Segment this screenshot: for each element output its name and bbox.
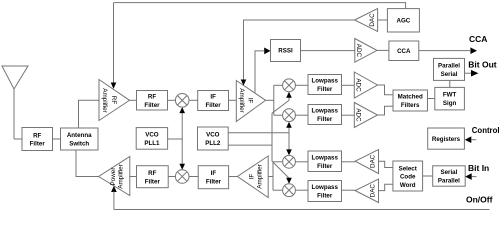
wire TX mixer to IF filter bbox=[189, 176, 198, 178]
AGC box bbox=[387, 9, 419, 32]
svg-text:Power: Power bbox=[110, 168, 117, 186]
svg-text:DAC: DAC bbox=[369, 154, 376, 168]
svg-text:Lowpass: Lowpass bbox=[311, 155, 338, 162]
svg-text:IF: IF bbox=[249, 174, 256, 180]
mixer I (receive) bbox=[283, 79, 296, 92]
wires ADCs to Matched Filters bbox=[378, 85, 394, 115]
AGC feedback wire to IF amplifier with arrow bbox=[241, 21, 247, 86]
svg-text:IF: IF bbox=[211, 170, 217, 177]
Serial Parallel box bbox=[433, 166, 466, 186]
mixer (transmit upconvert) bbox=[175, 170, 189, 184]
wire RF filter to mixer bbox=[168, 99, 176, 101]
svg-text:Filter: Filter bbox=[206, 178, 222, 185]
IF amplifier (transmit) bbox=[237, 156, 268, 198]
RF amplifier (receive) bbox=[99, 80, 130, 121]
wire lowpass Q TX to mixer Q bbox=[295, 189, 308, 191]
svg-text:IF: IF bbox=[210, 93, 216, 100]
DAC Q (transmit) bbox=[355, 179, 378, 203]
Bit In arrow bbox=[465, 173, 476, 180]
svg-text:Registers: Registers bbox=[432, 136, 461, 143]
mixer (receive first) bbox=[175, 94, 189, 108]
svg-text:Filter: Filter bbox=[144, 102, 160, 109]
Antenna Switch box bbox=[61, 128, 99, 150]
antenna bbox=[2, 66, 28, 139]
svg-text:Serial: Serial bbox=[441, 71, 458, 78]
svg-text:IF: IF bbox=[247, 98, 254, 104]
svg-text:CCA: CCA bbox=[469, 34, 487, 44]
Lowpass Filter box Q (transmit) bbox=[308, 181, 342, 202]
svg-text:Serial: Serial bbox=[440, 169, 457, 176]
AGC feedback wire to RF amplifier with arrow bbox=[111, 3, 117, 89]
wire DAC Q to lowpass Q bbox=[342, 189, 356, 191]
Matched Filters box bbox=[393, 90, 428, 111]
On/Off wire with arrow into power amplifier bbox=[111, 186, 489, 210]
LO wire PLL2 second output with diagonals bbox=[228, 92, 292, 184]
VCO PLL2 box bbox=[198, 127, 229, 150]
ADC Q bbox=[354, 103, 377, 128]
svg-text:RF: RF bbox=[110, 96, 117, 105]
RF Filter box (antenna) bbox=[22, 128, 53, 151]
wire lowpass Q to ADC Q bbox=[342, 114, 355, 116]
wire lowpass I TX to mixer I bbox=[295, 161, 308, 163]
svg-text:Lowpass: Lowpass bbox=[311, 108, 338, 115]
svg-text:Filter: Filter bbox=[317, 193, 333, 200]
RF Filter box (transmit) bbox=[137, 166, 169, 188]
svg-text:Filter: Filter bbox=[317, 163, 333, 170]
second feedback wire DAC to IF amp bbox=[244, 20, 355, 22]
svg-text:On/Off: On/Off bbox=[466, 195, 493, 205]
Lowpass Filter box Q (receive) bbox=[308, 105, 342, 125]
wires Select Code Word to DACs bbox=[379, 161, 393, 190]
svg-text:DAC: DAC bbox=[369, 13, 376, 27]
svg-text:PLL1: PLL1 bbox=[144, 140, 160, 147]
wire IF filter to IF amplifier bbox=[229, 99, 237, 101]
VCO PLL1 box bbox=[136, 128, 167, 150]
Lowpass Filter box I (transmit) bbox=[308, 151, 342, 172]
Bit Out arrow bbox=[465, 70, 479, 77]
Registers box bbox=[428, 128, 465, 149]
FWT Sign box bbox=[435, 87, 465, 110]
DAC (AGC) bbox=[355, 9, 378, 32]
AGC top feedback wire bbox=[114, 3, 406, 9]
Lowpass Filter box I (receive) bbox=[308, 75, 342, 95]
svg-text:ADC: ADC bbox=[355, 44, 362, 58]
svg-text:Filter: Filter bbox=[145, 178, 161, 185]
ADC (RSSI/CCA) bbox=[355, 39, 377, 63]
ADC I bbox=[354, 72, 377, 98]
LO wire PLL1 to both mixers bbox=[168, 107, 185, 170]
wire IF filter to IF amplifier (transmit) bbox=[229, 176, 238, 178]
wire ADC to CCA bbox=[377, 49, 389, 51]
mixer Q (transmit) bbox=[283, 184, 296, 197]
svg-text:Filter: Filter bbox=[30, 141, 46, 148]
DAC I (transmit) bbox=[355, 150, 378, 174]
svg-text:Filter: Filter bbox=[317, 116, 333, 123]
svg-text:VCO: VCO bbox=[145, 132, 159, 139]
Power Amplifier (transmit) bbox=[99, 157, 130, 196]
svg-text:Lowpass: Lowpass bbox=[311, 78, 338, 85]
wire power amp to RF filter (transmit) bbox=[130, 176, 137, 178]
svg-text:RSSI: RSSI bbox=[278, 48, 293, 55]
svg-text:Sign: Sign bbox=[443, 100, 457, 107]
svg-text:Bit Out: Bit Out bbox=[468, 60, 496, 70]
svg-text:Matched: Matched bbox=[398, 94, 423, 101]
CCA box bbox=[389, 41, 419, 61]
svg-text:RF: RF bbox=[148, 170, 156, 177]
Control arrow bbox=[465, 136, 477, 143]
wire FWT Sign to Parallel Serial bbox=[449, 80, 451, 87]
svg-text:Amplifier: Amplifier bbox=[257, 164, 264, 189]
wire antenna switch up to RF amplifier bbox=[79, 100, 100, 128]
wire TX IF amp input split from mixers bbox=[268, 162, 282, 190]
svg-text:AGC: AGC bbox=[397, 17, 411, 24]
svg-text:Code: Code bbox=[400, 174, 416, 181]
wire Matched Filters to FWT Sign bbox=[428, 98, 435, 100]
svg-text:ADC: ADC bbox=[355, 108, 362, 122]
LO wire PLL2 to mixer Q (up arrow) and TX mixer I (down arrow) bbox=[228, 122, 292, 156]
wire IF amp split to quadrature mixers bbox=[266, 85, 283, 115]
RSSI box bbox=[271, 40, 301, 62]
svg-text:Amplifier: Amplifier bbox=[238, 88, 245, 113]
wire RF filter to antenna switch bbox=[53, 138, 61, 140]
svg-text:RF: RF bbox=[148, 93, 156, 100]
svg-text:Filter: Filter bbox=[317, 86, 333, 93]
wire Serial Parallel to Select Code Word bbox=[423, 175, 433, 177]
svg-text:Lowpass: Lowpass bbox=[311, 184, 338, 191]
svg-text:Amplifier: Amplifier bbox=[117, 164, 124, 189]
arrow into RSSI bbox=[264, 48, 270, 55]
wire RF filter to TX mixer bbox=[168, 176, 175, 178]
IF Filter box (transmit) bbox=[198, 166, 228, 189]
Parallel Serial box bbox=[434, 58, 465, 80]
svg-text:VCO: VCO bbox=[206, 132, 220, 139]
svg-text:Filter: Filter bbox=[206, 102, 222, 109]
wire DAC I to lowpass I bbox=[342, 161, 356, 163]
wire CCA output with arrow bbox=[419, 47, 477, 54]
svg-text:Parallel: Parallel bbox=[438, 178, 460, 185]
svg-text:Switch: Switch bbox=[69, 141, 89, 148]
mixer I (transmit) bbox=[283, 155, 296, 168]
svg-text:Amplifier: Amplifier bbox=[101, 88, 108, 113]
mixer Q (receive) bbox=[283, 109, 296, 122]
wire lowpass I to ADC I bbox=[342, 84, 355, 86]
wire antenna to RF filter bbox=[14, 138, 22, 140]
svg-text:Antenna: Antenna bbox=[67, 132, 92, 139]
wire mixer Q to lowpass filter Q bbox=[295, 114, 308, 116]
wire mixer I to lowpass filter I bbox=[295, 84, 308, 86]
IF Filter box (receive) bbox=[198, 91, 229, 111]
svg-text:FWT: FWT bbox=[443, 91, 457, 98]
svg-text:Bit In: Bit In bbox=[468, 163, 489, 173]
RF Filter box (receive) bbox=[137, 91, 168, 111]
svg-text:Select: Select bbox=[399, 165, 417, 172]
svg-text:Word: Word bbox=[400, 182, 416, 189]
wire RF amp to RF filter bbox=[130, 99, 137, 101]
wire DAC to AGC bbox=[378, 19, 388, 21]
wire antenna switch down to power amplifier bbox=[76, 150, 99, 177]
svg-text:Filters: Filters bbox=[401, 102, 420, 109]
svg-text:ADC: ADC bbox=[355, 78, 362, 92]
IF amplifier (receive) bbox=[236, 81, 265, 122]
wire RSSI to ADC bbox=[301, 50, 355, 52]
svg-text:DAC: DAC bbox=[369, 184, 376, 198]
svg-text:Control: Control bbox=[472, 126, 500, 135]
svg-text:Parallel: Parallel bbox=[438, 62, 460, 69]
svg-text:CCA: CCA bbox=[397, 48, 411, 55]
svg-text:RF: RF bbox=[33, 132, 41, 139]
wire mixer to IF filter bbox=[189, 99, 198, 101]
svg-text:PLL2: PLL2 bbox=[205, 140, 221, 147]
Select Code Word box bbox=[393, 161, 423, 191]
RSSI tap wire bbox=[255, 51, 264, 93]
